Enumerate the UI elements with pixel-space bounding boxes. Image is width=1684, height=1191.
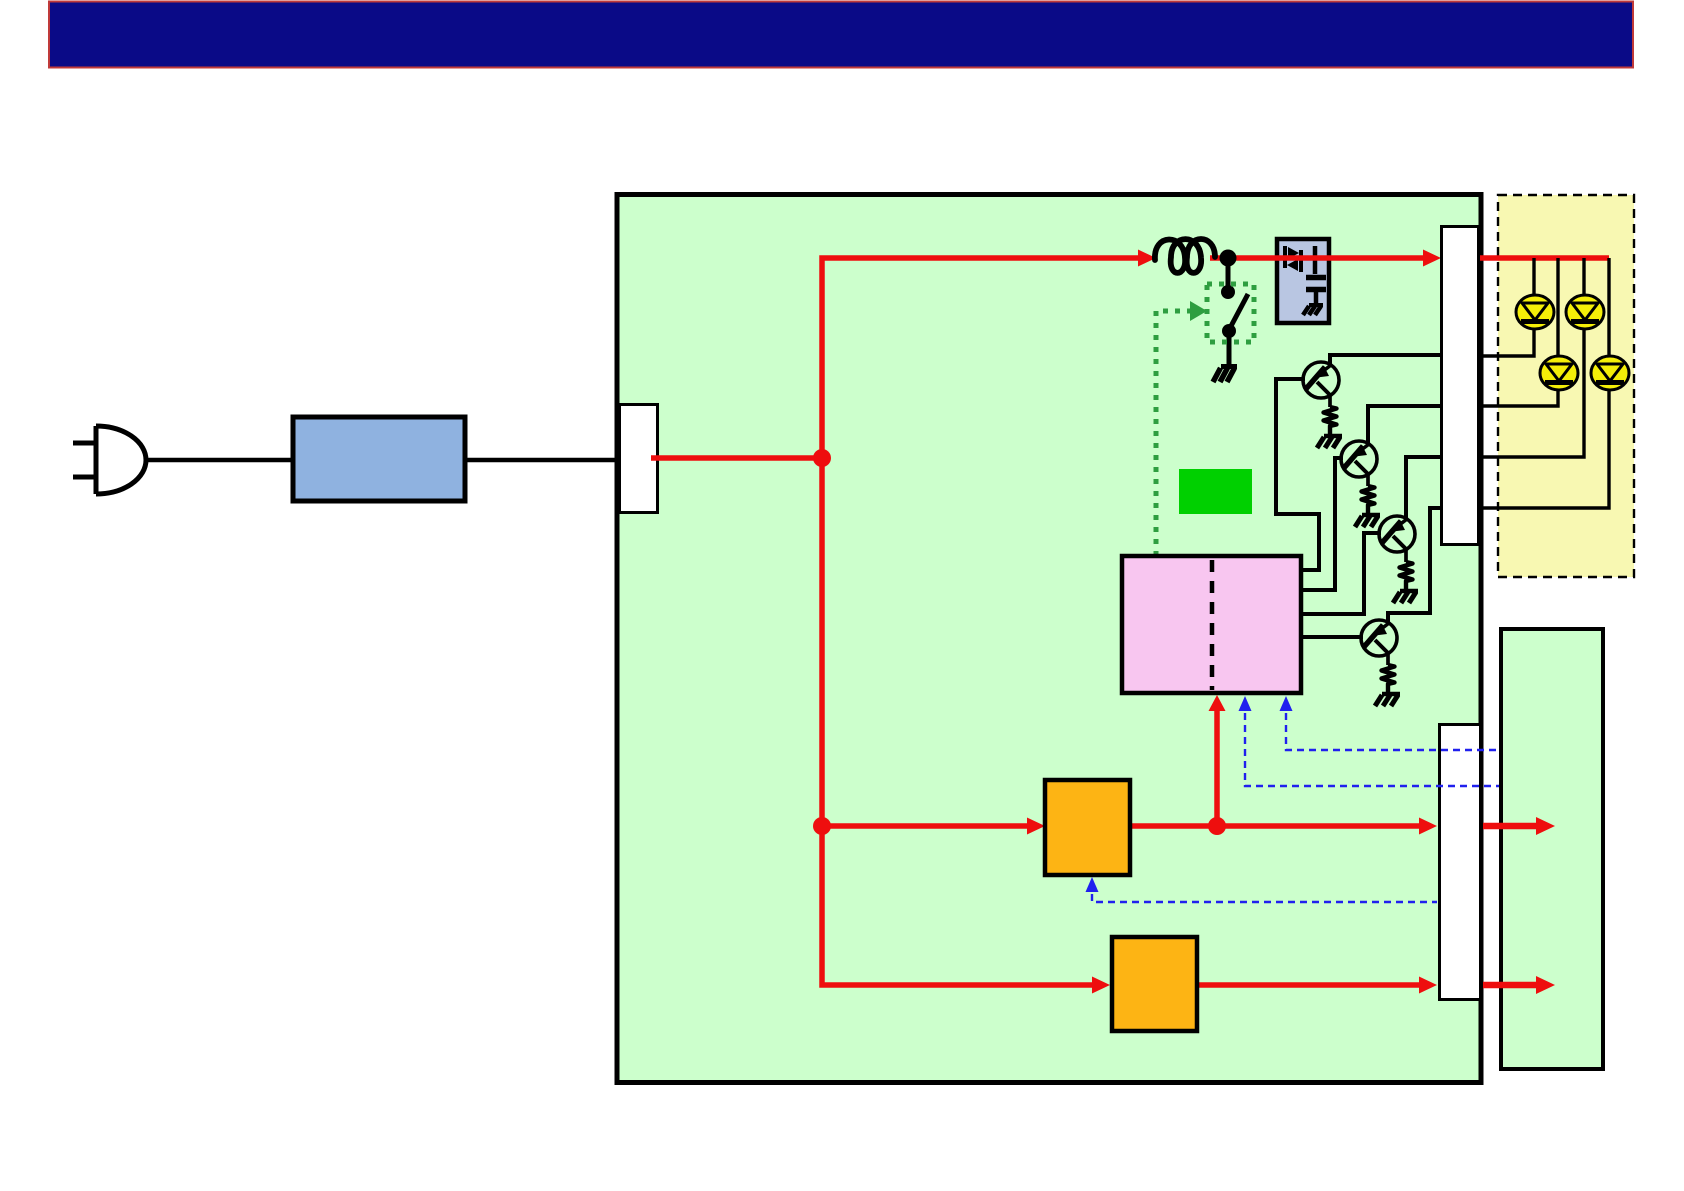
connector CN1 (620, 405, 658, 513)
wire DCDC1 to CN3 (1130, 823, 1420, 829)
arrow enable (1190, 301, 1207, 321)
LED D2 (1566, 295, 1604, 329)
transistor Q3 (1379, 516, 1415, 562)
LED D1 (1516, 295, 1554, 329)
control line fb3 (blue dashed) (1092, 894, 1437, 902)
wire main vertical bus (822, 258, 1141, 985)
node A junction dot (813, 449, 831, 467)
switch SW1 (1221, 258, 1248, 366)
driver IC U1 (1122, 556, 1301, 693)
wire output 1 (1483, 823, 1538, 830)
wire D1 cathode to CN2 (1479, 328, 1534, 356)
power cord wire (147, 458, 291, 463)
inductor L1 (1155, 239, 1215, 273)
black wires: LED unit (1479, 258, 1609, 508)
black wires: transistors to CN2 and U1 (1276, 355, 1441, 637)
connector CN2 (LED) (1442, 227, 1479, 545)
resistor R2 (1362, 486, 1375, 514)
arrow fb1 (1280, 696, 1293, 711)
transistor Q1 (1303, 362, 1339, 407)
wire Q1 base to U1 (1276, 379, 1319, 570)
enable control box (dotted green) (1207, 284, 1254, 342)
wire D2 cathode to CN2 (1479, 328, 1584, 457)
wire Q4 collector to CN2 (1388, 508, 1441, 622)
arrow into DCDC1 (1027, 818, 1045, 835)
capacitor C1 (1313, 246, 1318, 274)
wire D4 cathode to CN3 (1479, 389, 1609, 508)
wire red bus to D2 (1582, 258, 1585, 296)
wire red bus to D4 (1607, 258, 1610, 357)
wire Q3 base to U1 (1302, 533, 1381, 614)
resistor R1 (1324, 407, 1337, 435)
arrow output 2 (1536, 976, 1555, 994)
arrow into CN3 upper (1419, 818, 1437, 835)
control line fb1 (blue dashed) (1286, 713, 1499, 750)
node B junction dot (black) (1220, 250, 1237, 267)
wire Q4 base to U1 (1301, 635, 1363, 639)
wire bus to DCDC1 (822, 823, 1028, 829)
arrow into DCDC2 (1092, 977, 1110, 994)
wire red bus to D3 (1556, 258, 1559, 357)
control line fb2 (blue dashed) (1245, 713, 1499, 786)
DC-DC converter U4 (1112, 937, 1197, 1031)
wire adapter to connector CN1 (465, 458, 620, 463)
wire Q1 collector to CN2 (1330, 355, 1441, 364)
title bar (49, 2, 1633, 68)
TVS diode pair (1283, 246, 1287, 268)
wire node D up to driver IC (1214, 710, 1220, 826)
ground (R4) (1375, 694, 1400, 706)
wire Q3 collector to CN2 (1406, 457, 1441, 518)
ground (switch) (1213, 367, 1237, 383)
wire D3 cathode to CN2 (1479, 389, 1558, 406)
wire Q2 base to U1 (1302, 458, 1343, 590)
output panel (green, right) (1501, 629, 1603, 1069)
wire DCDC2 to CN3 (1197, 982, 1420, 988)
connector CN3 (1440, 725, 1481, 1000)
arrow into CN3 lower (1419, 977, 1437, 994)
resistor R4 (1382, 665, 1395, 693)
ground (filter) (1309, 303, 1323, 307)
LED unit box (dashed yellow) (1498, 195, 1634, 577)
wire CN2 to LED unit (1478, 255, 1609, 261)
arrow into driver IC (1209, 695, 1226, 711)
LED D4 (1591, 356, 1629, 390)
arrow into coil (1138, 250, 1156, 267)
ground (R2) (1355, 515, 1380, 527)
ground (R1) (1317, 436, 1342, 448)
wire red bus to D1 (1532, 258, 1535, 296)
node D junction dot (1208, 817, 1226, 835)
resistor R3 (1400, 562, 1413, 590)
wire CN1 to node A (651, 455, 822, 461)
DC-DC converter U3 (1045, 780, 1130, 875)
wire Q2 collector to CN2 (1368, 406, 1441, 443)
enable control line (dotted green) (1156, 311, 1192, 556)
status LED (green) (1179, 469, 1252, 514)
arrow into CN2 (1423, 250, 1441, 267)
transistor Q2 (1341, 441, 1377, 486)
AC plug P1 (73, 426, 146, 494)
transistor Q4 (1361, 620, 1397, 665)
arrow fb3 (1086, 877, 1099, 892)
ground (R3) (1393, 591, 1418, 603)
arrow fb2 (1239, 696, 1252, 711)
red power bus wires (651, 258, 1609, 985)
arrow output 1 (1536, 817, 1555, 835)
surge filter U2 (1277, 239, 1329, 323)
AC adapter PS1 (293, 417, 465, 501)
wire top run to coil / filter / CN2 (1210, 255, 1424, 261)
LED D3 (1540, 356, 1578, 390)
main board (617, 195, 1481, 1083)
wire output 2 (1483, 982, 1538, 989)
node C junction dot (813, 817, 831, 835)
